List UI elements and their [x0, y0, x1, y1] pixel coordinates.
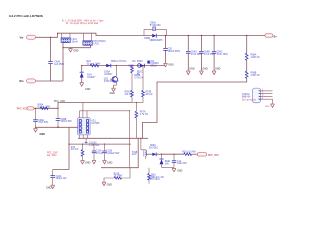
svg-text:100nF 630V: 100nF 630V — [168, 51, 181, 53]
svg-text:Do not mount: Do not mount — [242, 98, 256, 101]
svg-text:GND: GND — [73, 50, 79, 53]
svg-text:GND: GND — [85, 88, 91, 91]
svg-text:D05C: D05C — [137, 61, 143, 63]
resistor R07B chain — [142, 66, 144, 91]
svg-text:27k 1%: 27k 1% — [125, 94, 133, 96]
svg-text:R05A 2.7M 1%: R05A 2.7M 1% — [111, 60, 126, 63]
zener ZD01 — [161, 154, 163, 159]
svg-text:3: 3 — [82, 128, 83, 130]
choke LF01 — [61, 33, 78, 43]
wire Vin to rail — [36, 33, 153, 37]
resistor R05B chain — [131, 65, 133, 68]
svg-text:SBR8U60P5: SBR8U60P5 — [149, 40, 163, 42]
svg-text:2.2nF 50V: 2.2nF 50V — [89, 145, 100, 147]
capacitor C14 — [173, 154, 175, 160]
svg-text:1.8M 1%: 1.8M 1% — [251, 57, 260, 59]
wire detour box D06A — [144, 30, 167, 36]
svg-text:1.8M 1%: 1.8M 1% — [251, 75, 260, 77]
svg-text:47k 1%: 47k 1% — [71, 149, 79, 151]
diode D05B — [138, 64, 142, 68]
svg-text:LD7593: LD7593 — [91, 123, 100, 125]
svg-text:BYC8-600: BYC8-600 — [150, 25, 161, 27]
transformer T01 aux winding — [140, 138, 142, 150]
diode D05A — [106, 64, 111, 67]
svg-text:AUX: AUX — [132, 153, 137, 156]
svg-text:STF13NM60N: STF13NM60N — [104, 81, 119, 83]
capacitor C11 — [85, 143, 88, 145]
capacitor C09A — [35, 108, 37, 119]
capacitor C06C — [212, 36, 229, 75]
wire rectified rail — [82, 65, 165, 67]
capacitor CX04 — [50, 37, 52, 61]
resistor R08A — [246, 36, 248, 54]
svg-text:1N4007: 1N4007 — [87, 77, 96, 79]
svg-text:BYV26C: BYV26C — [149, 147, 158, 149]
svg-text:PFC_VCC: PFC_VCC — [54, 100, 65, 103]
svg-text:1N4937: 1N4937 — [104, 74, 113, 76]
capacitor C06A — [186, 36, 203, 75]
diode D04 vertical — [81, 66, 83, 73]
wire Rtn — [36, 80, 64, 82]
svg-text:47uF 450V: 47uF 450V — [191, 54, 203, 56]
ground C05 — [164, 63, 168, 66]
svg-text:0.022uF 50V: 0.022uF 50V — [106, 153, 120, 155]
svg-text:47uF 450V: 47uF 450V — [217, 54, 229, 56]
svg-text:10 ohm 1/4W: 10 ohm 1/4W — [87, 63, 101, 65]
svg-text:1: 1 — [82, 121, 83, 123]
resistor R08B — [246, 60, 248, 71]
capacitor C05 branch — [165, 36, 167, 49]
capacitor C10A — [52, 170, 54, 176]
svg-text:470 pF: 470 pF — [96, 153, 104, 155]
wire U01 bottom pins — [79, 135, 81, 138]
capacitor C09B — [57, 108, 59, 118]
diode D06A vertical — [153, 27, 156, 31]
svg-text:W : Vo ripple 10Vp-p at full: W : Vo ripple 10Vp-p at full load — [66, 22, 99, 25]
svg-text:GND: GND — [40, 133, 46, 136]
svg-text:10uF 50V: 10uF 50V — [177, 163, 187, 165]
wire mid rail — [68, 127, 70, 169]
resistor R07A — [135, 103, 137, 112]
diode blob top — [147, 61, 149, 64]
connector CN01 — [252, 88, 260, 103]
wire B+ rail — [157, 35, 265, 37]
wire gate vertical — [129, 111, 131, 168]
svg-text:GND: GND — [46, 186, 52, 189]
svg-text:GND: GND — [202, 68, 208, 71]
svg-text:PFC_VCC: PFC_VCC — [17, 109, 28, 111]
svg-text:220pF 1kV: 220pF 1kV — [56, 178, 68, 180]
ground aux — [162, 167, 175, 169]
wire vcc — [34, 103, 132, 109]
svg-text:GND: GND — [215, 68, 221, 71]
capacitor C12A — [93, 144, 95, 151]
svg-text:GND: GND — [177, 170, 183, 173]
op-amp U01 PFC controller — [78, 118, 100, 135]
svg-text:LF02: LF02 — [94, 43, 100, 45]
connector B+ — [265, 34, 273, 37]
ground D04 — [80, 83, 84, 87]
svg-text:GND: GND — [168, 64, 174, 67]
svg-text:1M 1%: 1M 1% — [145, 94, 152, 96]
svg-text:Vin: Vin — [20, 37, 24, 40]
svg-text:PFC_VCC: PFC_VCC — [208, 155, 219, 157]
wires CN01 pins — [261, 90, 273, 92]
svg-text:2.7M 1%: 2.7M 1% — [134, 78, 143, 80]
svg-text:GND: GND — [189, 68, 195, 71]
resistor R14 sense — [148, 168, 150, 174]
node junctions — [35, 33, 247, 155]
wire feedback — [142, 78, 246, 138]
svg-text:NTC/TRIAC: NTC/TRIAC — [94, 40, 107, 43]
wire gnd rail — [36, 126, 78, 128]
svg-text:NTC 5D-9: NTC 5D-9 — [149, 179, 160, 181]
choke LF02 — [83, 33, 106, 45]
svg-text:adj. 434V: adj. 434V — [47, 155, 57, 157]
svg-text:NC: NC — [137, 74, 141, 76]
svg-text:GND: GND — [107, 162, 113, 165]
svg-text:4.7k 1%: 4.7k 1% — [140, 114, 148, 116]
ground Y-cap — [69, 48, 73, 52]
svg-text:B4B-XH: B4B-XH — [242, 97, 251, 99]
svg-text:GND: GND — [107, 183, 113, 186]
svg-text:10mH: 10mH — [72, 41, 78, 43]
resistor R09 — [40, 107, 48, 109]
ground CN01 — [271, 104, 275, 107]
wire bottom rail — [78, 137, 148, 139]
svg-text:GND: GND — [265, 106, 270, 108]
svg-text:4: 4 — [82, 132, 83, 134]
svg-text:NC: NC — [132, 61, 136, 63]
svg-text:2: 2 — [82, 125, 83, 127]
svg-text:1uF 450V: 1uF 450V — [54, 64, 64, 66]
ground Q01 — [114, 83, 117, 88]
svg-text:Rtn: Rtn — [20, 80, 25, 83]
resistor R05C — [131, 90, 134, 97]
resistor R04 — [90, 64, 99, 67]
svg-text:47uF 50V: 47uF 50V — [38, 122, 48, 124]
svg-text:18V: 18V — [165, 163, 170, 165]
transistor Q01 — [104, 66, 119, 84]
svg-text:100nF 50V: 100nF 50V — [61, 121, 73, 123]
ground caps — [34, 129, 38, 132]
capacitor C06B — [199, 36, 216, 75]
wire choke bottoms — [62, 42, 64, 81]
wire sense — [101, 138, 138, 167]
capacitor C12B — [104, 144, 106, 151]
diode D06B — [152, 34, 156, 38]
wire U01 top pins — [79, 111, 81, 118]
svg-text:GND: GND — [85, 162, 91, 165]
wire divider join — [132, 102, 143, 104]
svg-text:GND: GND — [109, 92, 115, 95]
svg-text:9.3.2 PFC with LD7593S: 9.3.2 PFC with LD7593S — [9, 14, 43, 18]
svg-text:0 ohm 1/4W: 0 ohm 1/4W — [38, 107, 51, 109]
svg-text:250uH: 250uH — [150, 66, 157, 68]
connector PFC_VCC out — [197, 153, 207, 156]
